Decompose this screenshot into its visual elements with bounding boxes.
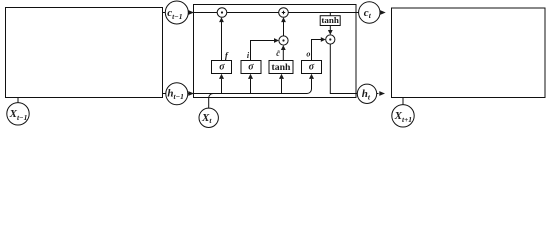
wire: bundle branch up to f gate, arrow bbox=[221, 79, 223, 94]
op: input multiply circle (i x c~) bbox=[279, 36, 288, 45]
middle cell box bbox=[194, 5, 357, 98]
wire: c_{t-1} arrow into middle box bbox=[188, 12, 189, 14]
wire: o gate output up and right to output multiply, arrow bbox=[312, 40, 322, 61]
svg-text:σ: σ bbox=[309, 61, 315, 72]
wire: tanh box to output multiply, arrow down bbox=[329, 26, 331, 31]
gate f box bbox=[212, 61, 232, 74]
node h_t bbox=[357, 84, 376, 103]
wire: bundle branch up to i gate, arrow bbox=[250, 79, 252, 94]
wire: output multiply down and right to h_t bbox=[330, 44, 357, 93]
svg-text:tanh: tanh bbox=[321, 16, 339, 25]
gate c~ box (tanh) bbox=[269, 61, 293, 74]
wire: X_{t+1} to right box bbox=[402, 98, 404, 105]
wire: c~ gate output up to input multiply, arrow bbox=[282, 50, 284, 61]
node c_t bbox=[359, 2, 380, 23]
node X_{t-1} bbox=[7, 103, 29, 125]
wire: h_{t-1} arrow into middle box bbox=[188, 93, 190, 95]
wire: h_t arrow to right box bbox=[377, 93, 379, 95]
wire: recurrent input line (h,x bundle) with curve up to o gate bbox=[194, 79, 312, 94]
wire: branch from cell line down to tanh box bbox=[329, 13, 331, 16]
wire: stub left box to c_{t-1} bbox=[163, 12, 166, 14]
svg-text:tanh: tanh bbox=[272, 62, 291, 72]
wire: X_t up into bundle with curve bbox=[209, 94, 214, 109]
wire: stub left box to h_{t-1} bbox=[163, 93, 167, 95]
op: forget multiply circle bbox=[217, 8, 227, 18]
wire: c_t arrow to right box bbox=[379, 12, 382, 14]
op: add circle bbox=[279, 8, 289, 18]
svg-text:σ: σ bbox=[219, 61, 225, 72]
wire: bundle branch up to c~ gate, arrow bbox=[281, 79, 283, 94]
wire: f gate output up to forget multiply, arrow bbox=[221, 22, 223, 61]
wire: cell state line bbox=[194, 12, 359, 14]
node h_{t-1} bbox=[166, 83, 188, 105]
wire: X_{t-1} to left box bbox=[17, 98, 19, 103]
node c_{t-1} bbox=[165, 1, 188, 24]
gate o box bbox=[302, 61, 322, 74]
gate i box bbox=[241, 61, 261, 74]
wire: input multiply up to add circle, arrow bbox=[283, 22, 285, 36]
tanh box (cell output) bbox=[320, 16, 340, 26]
node X_t bbox=[199, 108, 218, 127]
svg-text:o: o bbox=[306, 49, 310, 58]
op: output multiply circle bbox=[326, 35, 335, 44]
left cell box bbox=[6, 8, 163, 98]
svg-text:σ: σ bbox=[248, 61, 254, 72]
right cell box bbox=[392, 8, 546, 98]
wire: i gate output up and right to input multiply, arrow bbox=[251, 41, 275, 61]
node X_{t+1} bbox=[392, 105, 414, 127]
arrowhead into o gate bottom bbox=[309, 74, 314, 79]
